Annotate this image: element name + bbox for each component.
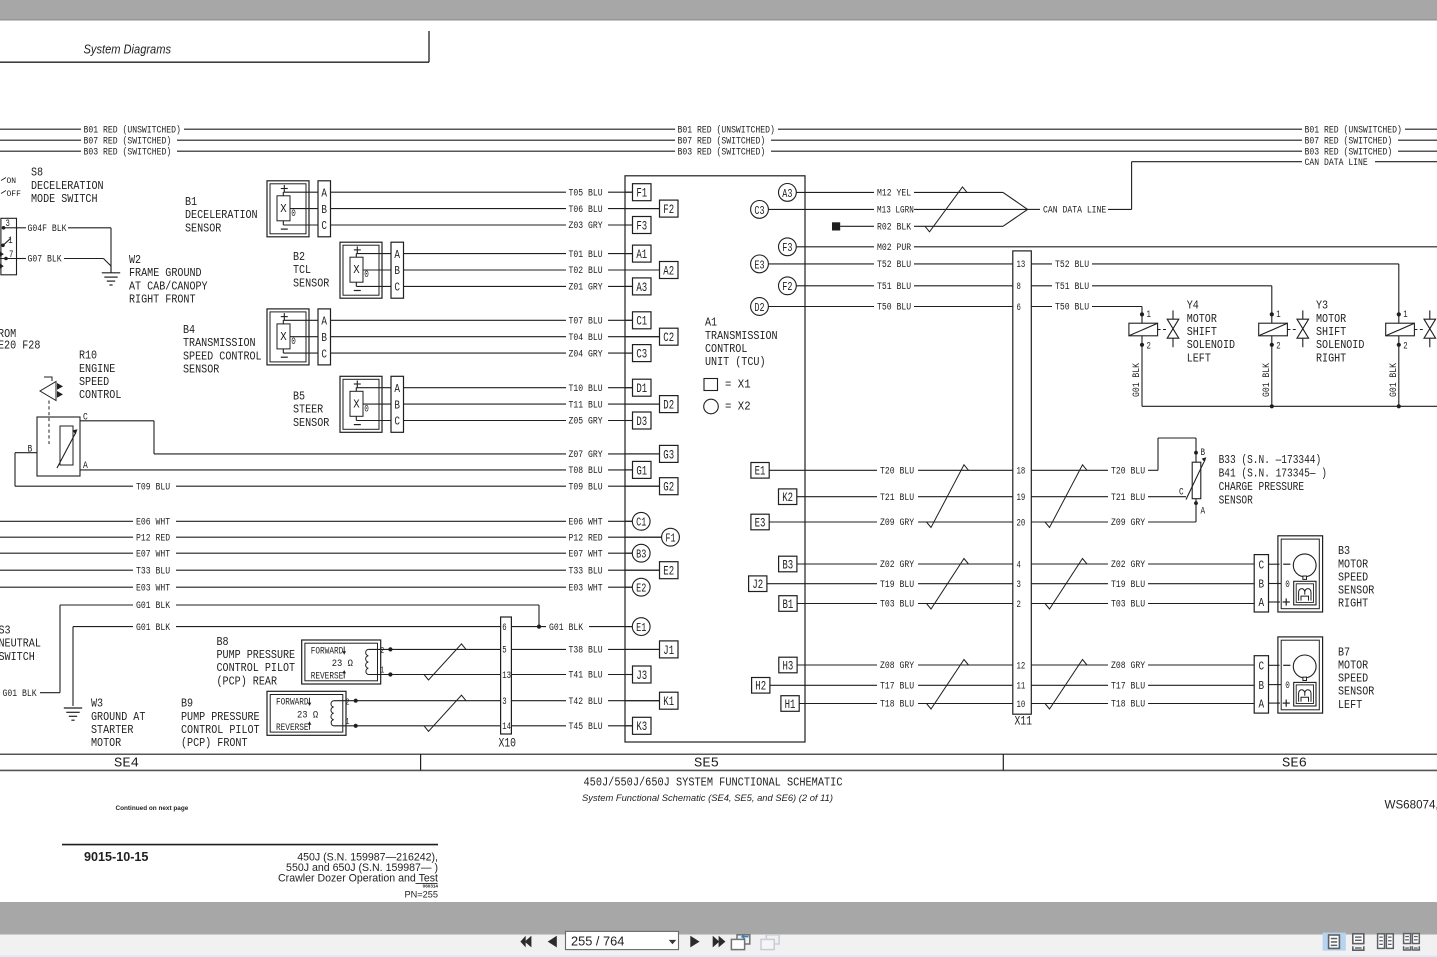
TCU pin J2 (X1 square right) bbox=[749, 576, 767, 592]
wire G01 BLK bus (solenoid grounds) bbox=[1142, 405, 1437, 407]
svg-text:TRANSMISSION: TRANSMISSION bbox=[705, 329, 778, 343]
svg-text:Y3: Y3 bbox=[1316, 299, 1328, 313]
sensor B5 STEER SENSOR bbox=[340, 376, 382, 432]
solenoid Y5 (right edge) bbox=[1398, 264, 1400, 323]
connector X11 bbox=[1013, 251, 1032, 714]
wire Z08 GRY (to X11-12) bbox=[797, 664, 877, 666]
TCU pin E3 (X1 square right) bbox=[751, 514, 769, 530]
svg-text:Z01 GRY: Z01 GRY bbox=[569, 282, 603, 294]
svg-text:SENSOR: SENSOR bbox=[1338, 685, 1374, 699]
footer bbox=[62, 844, 438, 846]
svg-text:T05 BLU: T05 BLU bbox=[569, 187, 603, 199]
svg-text:T03 BLU: T03 BLU bbox=[1111, 599, 1145, 611]
wire M13 LGRN bbox=[768, 208, 874, 210]
svg-text:0: 0 bbox=[291, 208, 296, 220]
svg-text:Y4: Y4 bbox=[1187, 299, 1199, 313]
TCU pin H3 (X1 square right) bbox=[779, 657, 797, 673]
svg-text:MOTOR: MOTOR bbox=[1187, 312, 1217, 326]
wire T38 BLU bbox=[511, 648, 566, 650]
svg-text:C: C bbox=[1259, 660, 1265, 674]
svg-text:A: A bbox=[1201, 506, 1206, 518]
wire E03 WHT bbox=[0, 586, 133, 588]
svg-text:RIGHT: RIGHT bbox=[1316, 351, 1346, 365]
svg-text:T19 BLU: T19 BLU bbox=[880, 579, 914, 591]
svg-text:SOLENOID: SOLENOID bbox=[1187, 338, 1235, 352]
svg-text:T09 BLU: T09 BLU bbox=[136, 481, 170, 493]
svg-text:SE4: SE4 bbox=[114, 757, 139, 772]
svg-text:SENSOR: SENSOR bbox=[1338, 584, 1374, 598]
wire Z09 GRY (to X11-20) bbox=[769, 521, 877, 523]
svg-text:REVERSE: REVERSE bbox=[276, 722, 309, 734]
wire Z01 GRY bbox=[403, 285, 566, 287]
svg-text:T52 BLU: T52 BLU bbox=[877, 259, 911, 271]
TCU pin H2 (X1 square right) bbox=[752, 678, 770, 694]
svg-text:DECELERATION: DECELERATION bbox=[31, 179, 104, 193]
TCU pin J3 (X1 square) bbox=[625, 674, 633, 676]
twisted pair Z08 group right bbox=[1045, 660, 1087, 710]
TCU pin A3 (X2 circle right) bbox=[779, 184, 797, 202]
svg-text:J3: J3 bbox=[636, 668, 647, 683]
svg-text:CONTROL: CONTROL bbox=[705, 342, 747, 356]
svg-text:E03 WHT: E03 WHT bbox=[136, 582, 170, 594]
svg-text:C1: C1 bbox=[636, 314, 647, 329]
wire T06 BLU bbox=[330, 208, 566, 210]
TCU pin G3 (X1 square) bbox=[625, 453, 660, 455]
svg-text:E3: E3 bbox=[755, 515, 766, 530]
svg-text:SENSOR: SENSOR bbox=[1219, 493, 1253, 507]
svg-text:Continued on next page: Continued on next page bbox=[116, 805, 189, 812]
svg-text:A1: A1 bbox=[636, 247, 647, 262]
svg-text:1: 1 bbox=[1276, 309, 1280, 321]
svg-text:SE6: SE6 bbox=[1282, 757, 1307, 772]
svg-text:Z08 GRY: Z08 GRY bbox=[880, 660, 914, 672]
TCU pin E3 (X2 circle right) bbox=[751, 255, 769, 273]
twisted pair B8 bbox=[424, 644, 466, 680]
svg-text:FORWARD: FORWARD bbox=[276, 697, 309, 709]
svg-text:T10 BLU: T10 BLU bbox=[569, 383, 603, 395]
svg-text:1: 1 bbox=[8, 236, 12, 247]
svg-text:M12 YEL: M12 YEL bbox=[877, 188, 911, 200]
svg-text:STEER: STEER bbox=[293, 403, 323, 417]
svg-text:F3: F3 bbox=[782, 241, 792, 255]
TCU pin D2 (X2 circle right) bbox=[751, 298, 769, 316]
wire T04 BLU bbox=[330, 336, 566, 338]
svg-text:CONTROL: CONTROL bbox=[79, 388, 121, 402]
svg-text:S8: S8 bbox=[31, 166, 43, 180]
svg-text:SENSOR: SENSOR bbox=[185, 221, 221, 235]
svg-text:System Functional Schematic (S: System Functional Schematic (SE4, SE5, a… bbox=[582, 792, 833, 803]
TCU pin B1 (X1 square right) bbox=[779, 596, 797, 612]
wire E06 WHT bbox=[0, 520, 133, 522]
svg-text:SENSOR: SENSOR bbox=[183, 363, 219, 377]
svg-text:3: 3 bbox=[1017, 579, 1021, 591]
svg-text:B: B bbox=[321, 203, 327, 217]
twisted pair B9 bbox=[424, 695, 466, 731]
svg-text:B41 (S.N. 173345— ): B41 (S.N. 173345— ) bbox=[1219, 466, 1327, 480]
svg-text:E07 WHT: E07 WHT bbox=[569, 548, 603, 560]
sensor B4 TRANSMISSION SPEED CONTROL SENSOR bbox=[267, 309, 309, 365]
svg-text:E06 WHT: E06 WHT bbox=[569, 517, 603, 529]
sensor B1 DECELERATION SENSOR bbox=[267, 181, 309, 237]
wire T52 BLU (X11 to solenoid) bbox=[1031, 263, 1052, 265]
svg-text:Z04 GRY: Z04 GRY bbox=[569, 348, 603, 360]
svg-text:MOTOR: MOTOR bbox=[91, 736, 121, 750]
svg-text:T03 BLU: T03 BLU bbox=[880, 599, 914, 611]
wire B9 pin1 to X10-14 bbox=[356, 725, 501, 727]
svg-text:PN=255: PN=255 bbox=[405, 889, 438, 899]
wire G01 BLK (from S3 neutral switch) bbox=[60, 604, 133, 606]
TCU pin G2 (X1 square) bbox=[625, 485, 660, 487]
svg-text:SPEED CONTROL: SPEED CONTROL bbox=[183, 349, 262, 363]
svg-text:C2: C2 bbox=[663, 330, 674, 345]
svg-text:6: 6 bbox=[1017, 302, 1021, 314]
svg-text:MOTOR: MOTOR bbox=[1338, 659, 1368, 673]
svg-text:Z03 GRY: Z03 GRY bbox=[569, 220, 603, 232]
TCU pin E2 (X1 square) bbox=[625, 569, 660, 571]
coil B8 PCP REAR bbox=[302, 640, 381, 684]
svg-text:W3: W3 bbox=[91, 697, 103, 711]
svg-text:A: A bbox=[1259, 697, 1265, 711]
wire T41 BLU bbox=[511, 674, 566, 676]
TCU pin E2 (X2 circle) bbox=[625, 586, 632, 588]
svg-text:ON: ON bbox=[7, 176, 17, 186]
ground W3 bbox=[64, 707, 82, 709]
sensor B7 MOTOR SPEED SENSOR LEFT bbox=[1254, 656, 1268, 713]
svg-text:B2: B2 bbox=[293, 250, 305, 264]
svg-text:D3: D3 bbox=[636, 414, 647, 429]
svg-text:12: 12 bbox=[1017, 660, 1026, 672]
svg-text:T18 BLU: T18 BLU bbox=[1111, 699, 1145, 711]
svg-text:C: C bbox=[321, 219, 327, 233]
TCU pin F2 (X2 circle right) bbox=[779, 277, 797, 295]
TCU pin D3 (X1 square) bbox=[625, 420, 633, 422]
svg-text:E06 WHT: E06 WHT bbox=[136, 517, 170, 529]
svg-text:SE5: SE5 bbox=[694, 757, 719, 772]
svg-text:0: 0 bbox=[364, 403, 369, 415]
svg-text:E2: E2 bbox=[663, 564, 674, 579]
svg-text:1: 1 bbox=[346, 717, 350, 727]
svg-text:B33 (S.N. —173344): B33 (S.N. —173344) bbox=[1219, 453, 1322, 467]
svg-text:G01 BLK: G01 BLK bbox=[549, 622, 584, 634]
svg-text:1: 1 bbox=[1147, 309, 1151, 321]
wire T21 BLU (X11 to B33) bbox=[1031, 496, 1108, 498]
svg-text:REVERSE: REVERSE bbox=[311, 671, 344, 683]
svg-text:MOTOR: MOTOR bbox=[1338, 557, 1368, 571]
svg-text:H2: H2 bbox=[755, 679, 766, 694]
toolbar two-page view button bbox=[1378, 934, 1385, 949]
bus wire B01 RED (UNSWITCHED) bbox=[0, 128, 81, 130]
svg-text:T51 BLU: T51 BLU bbox=[1055, 281, 1089, 293]
wire Z04 GRY bbox=[330, 352, 566, 354]
svg-text:G1: G1 bbox=[636, 463, 647, 478]
svg-text:B: B bbox=[1201, 447, 1206, 459]
svg-text:X: X bbox=[280, 330, 287, 344]
TCU pin B3 (X2 circle) bbox=[625, 552, 632, 554]
svg-text:2: 2 bbox=[1017, 599, 1021, 611]
twisted pair T20 group left bbox=[927, 465, 969, 528]
svg-text:CONTROL PILOT: CONTROL PILOT bbox=[217, 661, 296, 675]
wire T33 BLU bbox=[0, 569, 133, 571]
svg-text:R02 BLK: R02 BLK bbox=[877, 222, 912, 234]
switch S8 pin 7 bbox=[4, 257, 8, 261]
svg-text:T52 BLU: T52 BLU bbox=[1055, 259, 1089, 271]
svg-text:T20 BLU: T20 BLU bbox=[880, 466, 914, 478]
svg-text:E20 F28: E20 F28 bbox=[0, 339, 40, 353]
svg-text:SOLENOID: SOLENOID bbox=[1316, 338, 1364, 352]
svg-text:X: X bbox=[280, 202, 287, 216]
TCU pin K3 (X1 square) bbox=[625, 725, 633, 727]
wire Z07 GRY bbox=[154, 453, 566, 455]
TCU pin F1 (X2 circle) bbox=[625, 536, 662, 538]
TCU pin H1 (X1 square right) bbox=[781, 696, 799, 712]
TCU legend X1 square bbox=[704, 379, 718, 391]
svg-text:19: 19 bbox=[1017, 492, 1026, 504]
svg-text:T50 BLU: T50 BLU bbox=[1055, 302, 1089, 314]
svg-text:PUMP PRESSURE: PUMP PRESSURE bbox=[181, 710, 260, 724]
svg-text:E07 WHT: E07 WHT bbox=[136, 548, 170, 560]
svg-text:ENGINE: ENGINE bbox=[79, 362, 115, 376]
svg-text:J2: J2 bbox=[752, 577, 763, 592]
svg-text:T33 BLU: T33 BLU bbox=[136, 565, 170, 577]
svg-text:13: 13 bbox=[1017, 259, 1026, 271]
svg-text:M02 PUR: M02 PUR bbox=[877, 242, 911, 254]
svg-text:C3: C3 bbox=[636, 347, 647, 362]
svg-text:18: 18 bbox=[1017, 466, 1026, 478]
svg-text:TRANSMISSION: TRANSMISSION bbox=[183, 336, 256, 350]
connector X10 bbox=[501, 617, 512, 734]
twisted pair Z08 group left bbox=[927, 660, 969, 710]
svg-text:System Diagrams: System Diagrams bbox=[84, 42, 172, 57]
wire T10 BLU bbox=[403, 387, 566, 389]
svg-text:T38 BLU: T38 BLU bbox=[569, 645, 603, 657]
switch S8 ON/OFF levers bbox=[1, 178, 6, 181]
svg-text:E2: E2 bbox=[636, 582, 646, 596]
wire T45 BLU bbox=[511, 725, 566, 727]
TCU pin F3 (X2 circle right) bbox=[779, 238, 797, 256]
svg-text:G01 BLK: G01 BLK bbox=[136, 600, 171, 612]
svg-text:F1: F1 bbox=[636, 186, 647, 201]
svg-text:SHIFT: SHIFT bbox=[1187, 325, 1217, 339]
svg-text:A1: A1 bbox=[705, 316, 717, 330]
svg-text:9015-10-15: 9015-10-15 bbox=[84, 850, 148, 864]
svg-text:G2: G2 bbox=[663, 480, 674, 495]
TCU pin G1 (X1 square) bbox=[625, 469, 633, 471]
svg-text:23 Ω: 23 Ω bbox=[297, 709, 318, 721]
TCU pin F1 (X1 square) bbox=[625, 191, 633, 193]
svg-text:G04F BLK: G04F BLK bbox=[28, 223, 68, 235]
svg-text:K3: K3 bbox=[636, 719, 647, 734]
TCU legend X2 circle bbox=[704, 399, 719, 414]
svg-text:2: 2 bbox=[1147, 341, 1151, 353]
svg-text:X11: X11 bbox=[1015, 715, 1033, 729]
svg-text:C: C bbox=[1259, 558, 1265, 572]
svg-text:14: 14 bbox=[502, 721, 511, 733]
svg-text:B1: B1 bbox=[783, 597, 794, 612]
svg-text:A3: A3 bbox=[782, 187, 792, 201]
toolbar two-page continuous view button bbox=[1404, 934, 1411, 944]
svg-text:F2: F2 bbox=[663, 202, 674, 217]
svg-text:E3: E3 bbox=[754, 258, 764, 272]
wire Z03 GRY bbox=[330, 224, 566, 226]
svg-text:FRAME GROUND: FRAME GROUND bbox=[129, 266, 202, 280]
wire T01 BLU bbox=[403, 253, 566, 255]
wire T51 BLU (X11 to solenoid) bbox=[1031, 285, 1052, 287]
svg-text:B9: B9 bbox=[181, 697, 193, 711]
svg-text:WS68074,06: WS68074,06 bbox=[1385, 799, 1437, 812]
svg-text:B4: B4 bbox=[183, 323, 195, 337]
svg-text:AT CAB/CANOPY: AT CAB/CANOPY bbox=[129, 279, 208, 293]
toolbar first-page button bbox=[525, 936, 532, 948]
TCU pin C3 (X1 square) bbox=[625, 352, 633, 354]
wire T20 BLU (X11 to B33) bbox=[1031, 469, 1108, 471]
svg-text:2: 2 bbox=[346, 698, 350, 708]
wire M12 YEL bbox=[796, 191, 874, 193]
svg-text:2: 2 bbox=[1276, 341, 1280, 353]
svg-text:Z08 GRY: Z08 GRY bbox=[1111, 660, 1145, 672]
svg-text:B03 RED (SWITCHED): B03 RED (SWITCHED) bbox=[84, 146, 172, 158]
svg-text:10: 10 bbox=[1017, 699, 1026, 711]
wire Z09 GRY (X11 to B33) bbox=[1031, 521, 1108, 523]
bus wire B03 RED (SWITCHED) bbox=[0, 150, 81, 152]
svg-text:B03 RED (SWITCHED): B03 RED (SWITCHED) bbox=[678, 146, 766, 158]
twisted pair Z02 group left bbox=[927, 559, 969, 610]
svg-text:B5: B5 bbox=[293, 390, 305, 404]
svg-text:C3: C3 bbox=[754, 204, 764, 218]
ground W2 bbox=[102, 272, 120, 274]
svg-text:T21 BLU: T21 BLU bbox=[1111, 492, 1145, 504]
sensor B33/B41 potentiometer bbox=[1194, 451, 1198, 455]
twisted pair CAN bbox=[925, 187, 967, 232]
svg-text:X10: X10 bbox=[499, 737, 517, 751]
svg-text:3: 3 bbox=[502, 696, 506, 708]
op-amp U1 TCU box A1 bbox=[625, 176, 805, 742]
wire T07 BLU bbox=[330, 319, 566, 321]
svg-text:NEUTRAL: NEUTRAL bbox=[0, 637, 41, 651]
svg-text:A: A bbox=[1259, 596, 1265, 610]
svg-text:1: 1 bbox=[1403, 309, 1407, 321]
svg-text:B: B bbox=[28, 444, 33, 456]
svg-text:B3: B3 bbox=[636, 548, 646, 562]
svg-text:G01 BLK: G01 BLK bbox=[3, 688, 38, 700]
svg-text:D2: D2 bbox=[754, 301, 764, 315]
svg-text:GROUND AT: GROUND AT bbox=[91, 710, 145, 724]
solenoid Y4 MOTOR SHIFT SOLENOID LEFT bbox=[1141, 307, 1143, 324]
svg-text:B3: B3 bbox=[782, 557, 793, 572]
TCU pin A2 (X1 square) bbox=[625, 269, 660, 271]
wire M02 PUR bbox=[796, 246, 874, 248]
TCU pin J1 (X1 square) bbox=[625, 648, 660, 650]
wire T02 BLU bbox=[403, 269, 566, 271]
toolbar previous-view button bbox=[742, 934, 748, 939]
toolbar page combobox bbox=[566, 931, 679, 949]
svg-text:0: 0 bbox=[364, 269, 369, 281]
svg-text:6: 6 bbox=[502, 622, 506, 634]
svg-text:M13 LGRN: M13 LGRN bbox=[877, 205, 914, 217]
toolbar next button bbox=[690, 936, 699, 948]
svg-text:0: 0 bbox=[1285, 680, 1290, 692]
coil B9 PCP FRONT bbox=[267, 691, 346, 735]
svg-text:DECELERATION: DECELERATION bbox=[185, 208, 258, 222]
svg-text:0: 0 bbox=[291, 336, 296, 348]
svg-text:H1: H1 bbox=[785, 697, 796, 712]
svg-text:TCL: TCL bbox=[293, 263, 311, 277]
svg-text:R10: R10 bbox=[79, 349, 97, 363]
switch S8 lever pin 1 bbox=[1, 244, 5, 248]
svg-text:LEFT: LEFT bbox=[1338, 698, 1362, 712]
wire T09 BLU bbox=[15, 485, 133, 487]
wire CAN DATA LINE (mid) bbox=[1028, 208, 1040, 210]
svg-text:T11 BLU: T11 BLU bbox=[569, 399, 603, 411]
TCU pin C2 (X1 square) bbox=[625, 336, 660, 338]
wire CAN DATA LINE (top right) bbox=[1132, 161, 1302, 163]
TCU pin C1 (X2 circle) bbox=[625, 520, 632, 522]
wire T11 BLU bbox=[403, 403, 566, 405]
wire R02 BLK with terminator bbox=[832, 222, 840, 230]
svg-text:Z09 GRY: Z09 GRY bbox=[880, 517, 914, 529]
wire T19 BLU (X11 to B3) bbox=[1031, 583, 1108, 585]
svg-text:PUMP PRESSURE: PUMP PRESSURE bbox=[217, 648, 296, 662]
svg-text:13: 13 bbox=[502, 670, 511, 682]
wire E07 WHT bbox=[0, 552, 133, 554]
svg-text:T45 BLU: T45 BLU bbox=[569, 721, 603, 733]
svg-text:Z02 GRY: Z02 GRY bbox=[1111, 559, 1145, 571]
svg-text:Z07 GRY: Z07 GRY bbox=[569, 449, 603, 461]
svg-text:8: 8 bbox=[1017, 281, 1021, 293]
svg-text:UNIT (TCU): UNIT (TCU) bbox=[705, 355, 766, 369]
svg-text:S3: S3 bbox=[0, 623, 11, 637]
svg-text:W2: W2 bbox=[129, 253, 141, 267]
svg-text:X: X bbox=[353, 397, 360, 411]
wire T50 BLU (X11 to solenoid) bbox=[1031, 306, 1052, 308]
CAN converge arrow bbox=[1003, 192, 1028, 209]
svg-text:C1: C1 bbox=[636, 516, 646, 530]
svg-text:B: B bbox=[1259, 679, 1265, 693]
svg-text:T18 BLU: T18 BLU bbox=[880, 699, 914, 711]
TCU pin K1 (X1 square) bbox=[625, 700, 660, 702]
svg-text:T50 BLU: T50 BLU bbox=[877, 302, 911, 314]
svg-text:E1: E1 bbox=[755, 464, 766, 479]
potentiometer R10 adjuster symbol bbox=[44, 377, 52, 381]
svg-text:T21 BLU: T21 BLU bbox=[880, 492, 914, 504]
wire G07 BLK bbox=[17, 258, 27, 260]
svg-text:450J/550J/650J SYSTEM FUNCTION: 450J/550J/650J SYSTEM FUNCTIONAL SCHEMAT… bbox=[584, 776, 843, 790]
svg-text:FORWARD: FORWARD bbox=[311, 645, 344, 657]
TCU pin B3 (X1 square right) bbox=[779, 556, 797, 572]
svg-text:T17 BLU: T17 BLU bbox=[880, 681, 914, 693]
svg-text:SPEED: SPEED bbox=[1338, 570, 1368, 584]
svg-text:E1: E1 bbox=[636, 621, 646, 635]
TCU pin D1 (X1 square) bbox=[625, 387, 633, 389]
TCU pin A1 (X1 square) bbox=[625, 253, 633, 255]
svg-text:P12 RED: P12 RED bbox=[136, 532, 170, 544]
TCU pin E1 (X2 circle) bbox=[625, 626, 632, 628]
svg-text:K2: K2 bbox=[782, 490, 793, 505]
svg-text:B: B bbox=[321, 331, 327, 345]
svg-text:LEFT: LEFT bbox=[1187, 351, 1211, 365]
svg-text:C: C bbox=[394, 281, 400, 295]
svg-text:MOTOR: MOTOR bbox=[1316, 312, 1346, 326]
svg-text:= X2: = X2 bbox=[725, 399, 751, 413]
svg-text:A: A bbox=[394, 382, 400, 396]
svg-text:B: B bbox=[1259, 578, 1265, 592]
wire P12 RED bbox=[0, 536, 133, 538]
wire T03 BLU (X11 to B3) bbox=[1031, 603, 1108, 605]
svg-text:T02 BLU: T02 BLU bbox=[569, 265, 603, 277]
twisted pair Z02 group right bbox=[1045, 559, 1087, 610]
sensor B3 MOTOR SPEED SENSOR RIGHT bbox=[1254, 555, 1268, 612]
svg-text:Crawler Dozer Operation and Te: Crawler Dozer Operation and Test bbox=[278, 873, 438, 885]
wire B9 pin2 to X10-3 bbox=[356, 700, 501, 702]
